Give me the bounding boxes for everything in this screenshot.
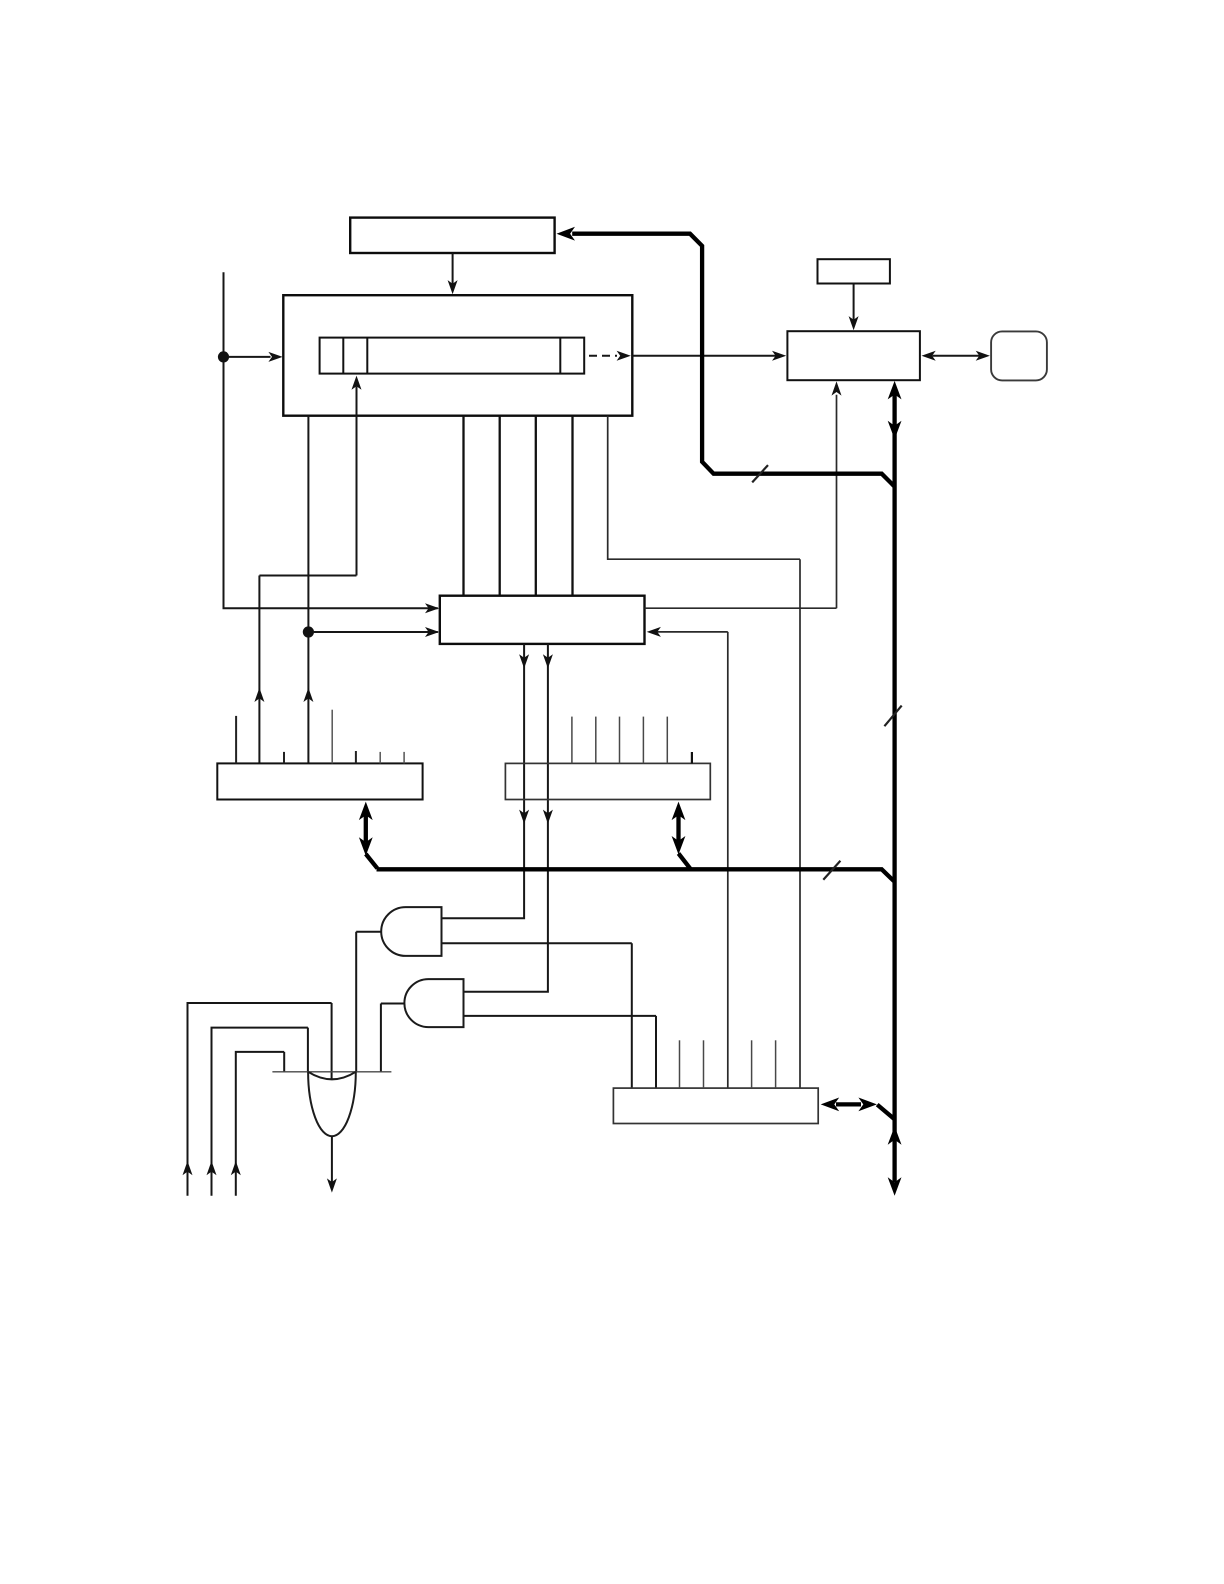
wire internal recovered-data arrow up into inner shift register [259, 386, 356, 575]
wire RxD input vertical from top-left down and into control box [224, 272, 438, 608]
wire receiver to data recovery pin 2 [499, 416, 501, 596]
wire receiver to data recovery pin 3 [535, 416, 537, 596]
wire thick horizontal register bus [377, 869, 895, 881]
pin U8-3 [283, 752, 285, 764]
box U7 data recovery logic [440, 596, 645, 644]
pin U9-1 [571, 717, 573, 764]
box U1 baud rate clock (top) [350, 218, 554, 253]
pin U9-2 [595, 717, 597, 764]
wire bidirectional between U5 and U6 [932, 355, 979, 357]
wire thick double arrow interrupt register to bus [836, 1104, 894, 1118]
pin U8-8 [403, 752, 405, 764]
pin U10-4 [703, 1040, 705, 1088]
gate G2 AND (points left) [404, 979, 463, 1027]
wire AND gate 1 second input from interrupt box [442, 943, 632, 1088]
wire shift register cell divider 2 [366, 338, 368, 374]
pin U8-1 [235, 716, 237, 764]
bus width slash on vertical data bus [884, 706, 901, 727]
pin U9-6 short stub [691, 752, 693, 763]
box U6 pin buffer (rounded) [991, 331, 1047, 380]
wire G1 output down to OR gate [356, 932, 381, 1072]
wire AND gate 2 second input from interrupt box [464, 1016, 657, 1088]
pin U9-4 [642, 717, 644, 764]
pin U10-3 [679, 1040, 681, 1088]
wire U1 to receiver box arrow [452, 253, 454, 284]
wire shift register cell divider 1 [342, 338, 344, 374]
wire U7 down through control register to AND gate 2 input [464, 644, 548, 992]
wire thick data bus bottom double arrow [888, 1126, 902, 1145]
pin U9-3 [619, 717, 621, 764]
box U9 control register (center) [505, 763, 710, 799]
pin U8-6 [355, 751, 357, 763]
wire receiver to data recovery pin 4 [571, 416, 573, 596]
wire dashed shift register serial out [589, 355, 617, 357]
box U10 interrupt status register (bottom) [613, 1088, 818, 1123]
box U3 receive shift register (inner) [320, 338, 585, 374]
wire thick double arrow control register to bus [679, 815, 691, 869]
wire serial data to SCI data register [632, 355, 776, 357]
wire OR gate input rail [272, 1071, 391, 1073]
wire receiver to data recovery pin 1 [462, 416, 464, 596]
wire interrupt request input a [188, 1003, 332, 1196]
pin U8-5 [331, 710, 333, 764]
wire G2 output down to OR gate rail [381, 1004, 405, 1072]
gate G1 AND (points left) [381, 907, 441, 956]
box U8 status register (left) [217, 763, 422, 799]
bus width slash on thick horizontal feedback [752, 465, 768, 482]
bus width slash on register bus [823, 861, 840, 880]
wire interrupt request input b [212, 1028, 308, 1196]
box U2 receiver block (large) [283, 295, 632, 416]
wire RxD branch into receive shift register box [228, 356, 271, 358]
pin U10-6 [751, 1040, 753, 1088]
wire from receiver box bottom down to status register [307, 416, 309, 764]
box U4 small control (top right) [818, 259, 890, 283]
wire U7 down through control register to AND gate 1 input [442, 644, 525, 918]
wire U7 right side to SCI data register bottom [645, 395, 837, 608]
gate G3 OR input arc [308, 1072, 356, 1080]
wire flag line down to status register with up arrowhead [258, 576, 260, 764]
wire thick feedback from data bus into top box (with bevels) [572, 234, 894, 487]
node junction dot on RxD line [218, 351, 229, 362]
wire interrupt request input c [236, 1052, 284, 1196]
wire receiver output right-down to interrupt logic box [608, 416, 800, 1088]
pin U10-7 [775, 1040, 777, 1088]
wire U4 to data register arrow [853, 284, 855, 321]
wire G3 output down [331, 1136, 333, 1182]
wire thick internal data bus vertical [892, 394, 896, 1182]
gate G3 OR (points down) [308, 1072, 356, 1136]
node junction dot on that wire [303, 626, 314, 637]
wire shift register cell divider 3 [559, 338, 561, 374]
pin U8-7 [379, 752, 381, 764]
wire thick double arrow status register to bus [366, 815, 378, 868]
pin U9-5 [666, 717, 668, 764]
wire from interrupt box up into U7 right side [657, 632, 728, 1088]
box U5 SCI data register [787, 331, 920, 380]
wire junction branch into data recovery box [313, 631, 438, 633]
